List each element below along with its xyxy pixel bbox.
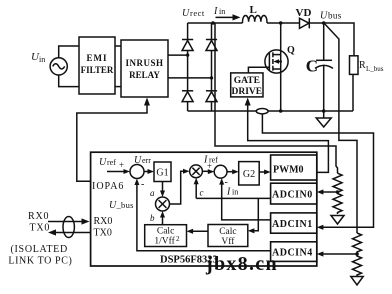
- svg-text:RELAY: RELAY: [129, 70, 160, 80]
- node C on bottom rail: [322, 109, 326, 113]
- label Uref: [99, 157, 124, 170]
- resistor R1b: [333, 192, 342, 214]
- block G2: [239, 162, 260, 185]
- svg-text:_bus: _bus: [116, 200, 134, 210]
- wire branch ADCIN0 to Calc Vff: [248, 198, 258, 233]
- wire bridge right leg: [211, 23, 213, 111]
- svg-text:VD: VD: [296, 7, 312, 19]
- inductor L: [243, 15, 267, 23]
- block G1: [154, 162, 171, 182]
- svg-text:bus: bus: [328, 11, 342, 21]
- svg-text:U: U: [134, 155, 142, 166]
- capacitor C: [315, 23, 333, 111]
- resistor R2b: [353, 254, 362, 276]
- svg-text:PWM0: PWM0: [273, 165, 304, 176]
- svg-text:Calc: Calc: [157, 227, 174, 237]
- DSP block DSP56F8323: [91, 152, 317, 266]
- diode D4 bridge bottom-right: [206, 91, 217, 102]
- inrush relay block: [121, 40, 168, 97]
- wire top rail: [188, 22, 243, 24]
- node Q source on rail: [279, 109, 283, 113]
- wire RX0 arrow into DSP: [48, 218, 90, 224]
- wire Iin feedback ADCIN1 to S2: [219, 178, 270, 220]
- node Ubus: [322, 21, 326, 25]
- transistor Q MOSFET: [265, 23, 288, 73]
- port ADCIN4: [271, 242, 317, 262]
- svg-text:Q: Q: [287, 45, 295, 56]
- svg-text:Vff: Vff: [221, 236, 235, 247]
- wire S1 to G1: [144, 169, 154, 174]
- label Iin: [213, 6, 225, 17]
- block Calc Vff: [208, 225, 248, 248]
- diode D3 bridge bottom-left: [182, 91, 193, 102]
- label U_bus: [109, 200, 134, 211]
- wire c net from ADCIN0: [196, 197, 270, 199]
- svg-text:1/Vff: 1/Vff: [154, 236, 175, 247]
- svg-text:in: in: [219, 7, 225, 16]
- svg-text:c: c: [200, 188, 204, 198]
- wire Uref input arrow: [107, 169, 130, 174]
- diode VD: [300, 18, 324, 28]
- ground under C: [316, 111, 331, 127]
- multiplier M1: [156, 197, 170, 211]
- wire M1 to M2: [170, 169, 190, 204]
- wire Q source to bottom rail: [280, 73, 282, 111]
- svg-text:jbx8.cn: jbx8.cn: [205, 253, 278, 275]
- svg-text:(ISOLATED: (ISOLATED: [11, 244, 68, 255]
- svg-text:LINK TO PC): LINK TO PC): [8, 256, 72, 267]
- node Urect: [211, 21, 215, 25]
- svg-text:DRIVE: DRIVE: [231, 87, 262, 97]
- svg-text:ADCIN0: ADCIN0: [272, 190, 313, 201]
- diode D1 bridge top-left: [182, 40, 193, 51]
- label Uerr: [134, 155, 151, 166]
- svg-text:FILTER: FILTER: [81, 65, 114, 75]
- wire INRUSH to bridge right leg: [168, 77, 212, 79]
- wire bottom rail: [188, 110, 353, 112]
- label ISOLATED LINK TO PC: [8, 244, 72, 267]
- svg-text:G1: G1: [156, 168, 168, 179]
- svg-text:rect: rect: [190, 8, 205, 18]
- multiplier M2: [190, 165, 203, 178]
- ground under divider R1: [331, 216, 344, 225]
- svg-text:I: I: [226, 187, 231, 198]
- wire RL bottom to rail: [352, 74, 354, 111]
- svg-text:in: in: [232, 188, 238, 197]
- node divider R1 tap: [336, 190, 340, 194]
- current direction arrow Iin: [216, 14, 241, 20]
- wire U_bus net ADCIN4 to S1: [134, 179, 270, 251]
- node divider R2 tap: [355, 252, 359, 256]
- svg-text:GATE: GATE: [234, 76, 260, 86]
- wire R2 tap to ADCIN4: [317, 251, 357, 256]
- resistor RL_bus: [350, 56, 359, 75]
- wire R1 tap to ADCIN0: [317, 189, 338, 194]
- wire Uin top to EMI filter: [59, 46, 79, 58]
- svg-text:Calc: Calc: [219, 227, 236, 237]
- wire gate drive to Q gate: [248, 67, 269, 73]
- svg-text:R: R: [359, 60, 366, 71]
- gate drive block: [231, 73, 263, 97]
- port PWM0: [271, 155, 317, 180]
- node Q drain on rail: [279, 21, 283, 25]
- node bridge left AC input: [186, 53, 189, 56]
- summing junction S2: [214, 165, 227, 178]
- wire b from Calc 1/Vff2 to M1: [160, 211, 165, 225]
- svg-text:2: 2: [176, 235, 180, 243]
- block Calc 1/Vff2: [145, 225, 187, 247]
- wire c arrow into M2: [194, 178, 199, 199]
- svg-text:+: +: [119, 160, 124, 170]
- svg-text:TX0: TX0: [94, 228, 112, 239]
- wire bridge left leg: [187, 23, 189, 111]
- svg-text:-: -: [141, 179, 144, 190]
- svg-text:ref: ref: [107, 158, 116, 167]
- wire Urect sense to divider R1: [215, 23, 338, 173]
- AC source Uin: [50, 58, 67, 75]
- svg-text:EMI: EMI: [87, 53, 108, 63]
- svg-text:C: C: [306, 57, 318, 76]
- svg-text:ADCIN1: ADCIN1: [272, 219, 313, 230]
- svg-text:INRUSH: INRUSH: [125, 58, 163, 68]
- port ADCIN1: [271, 213, 317, 233]
- svg-text:U: U: [99, 157, 107, 168]
- label RL_bus: [359, 60, 384, 73]
- wire IOPA6 to inrush relay: [77, 98, 150, 182]
- svg-text:L: L: [250, 4, 257, 16]
- svg-text:L_bus: L_bus: [366, 65, 384, 73]
- svg-text:U: U: [182, 8, 190, 19]
- wire current sense to ADCIN1: [262, 114, 373, 230]
- label Iref: [203, 155, 218, 172]
- wire Uin bottom to EMI filter: [59, 75, 79, 87]
- svg-text:TX0: TX0: [30, 223, 51, 234]
- wire EMI to INRUSH top: [115, 45, 121, 47]
- wire Calc Vff to Calc 1/Vff2: [187, 229, 209, 234]
- wire rail L to VD: [267, 22, 300, 24]
- label Iin feedback: [226, 187, 238, 198]
- svg-text:+: +: [207, 161, 212, 171]
- svg-text:a: a: [150, 188, 155, 198]
- svg-text:RX0: RX0: [28, 211, 49, 222]
- resistor R1a: [333, 173, 342, 192]
- wire G2 to PWM0: [259, 170, 270, 175]
- svg-text:ADCIN4: ADCIN4: [272, 248, 313, 259]
- wire PWM0 to gate drive: [245, 98, 329, 173]
- wire TX0 arrow out of DSP: [48, 229, 91, 235]
- EMI filter block: [79, 37, 115, 94]
- svg-text:U: U: [320, 11, 328, 22]
- wire INRUSH to bridge left leg: [168, 54, 188, 56]
- wire S2 to G2: [227, 169, 239, 174]
- summing junction S1: [130, 165, 144, 179]
- svg-text:G2: G2: [243, 169, 255, 180]
- svg-text:b: b: [150, 213, 155, 223]
- svg-text:in: in: [39, 55, 45, 64]
- wire M2 to S2: [202, 169, 214, 174]
- svg-text:IOPA6: IOPA6: [92, 181, 124, 192]
- diode D2 bridge top-right: [206, 40, 217, 51]
- port ADCIN0: [271, 183, 317, 204]
- label Urect: [182, 8, 205, 19]
- node bridge right AC input: [210, 76, 213, 79]
- wire EMI to INRUSH bottom: [115, 86, 121, 88]
- wire Ubus sense to divider R2: [325, 24, 358, 233]
- isolation ellipse: [63, 217, 74, 238]
- svg-text:RX0: RX0: [94, 216, 113, 227]
- label Ubus: [320, 11, 342, 22]
- wire G1 to multiplier M1, signal a: [160, 182, 165, 198]
- ground under divider R2: [351, 277, 363, 286]
- resistor R2a: [353, 233, 362, 254]
- current sense transformer: [256, 109, 268, 114]
- svg-text:I: I: [213, 6, 218, 17]
- wire rail Ubus to RL top: [324, 23, 354, 56]
- svg-text:err: err: [142, 156, 151, 165]
